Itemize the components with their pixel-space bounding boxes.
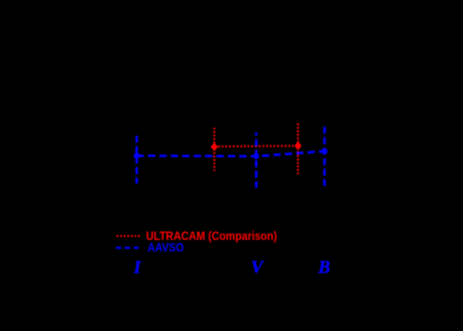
legend red dotted sample (117, 235, 141, 237)
svg-text:AAVSO: AAVSO (148, 241, 184, 254)
svg-text:V: V (251, 257, 265, 277)
blue marker 2 (253, 153, 259, 159)
svg-text:I: I (133, 257, 142, 277)
red errorbar 1 (213, 128, 215, 171)
svg-text:B: B (317, 257, 330, 277)
blue errorbar 3 (323, 127, 326, 186)
blue errorbar 1 (135, 136, 138, 184)
red marker 2 (294, 142, 301, 151)
red errorbar 2 (297, 123, 299, 174)
blue marker 3 (322, 148, 328, 154)
blue marker 1 (134, 153, 140, 159)
red marker 1 (211, 143, 218, 152)
blue errorbar 2 (255, 133, 258, 188)
blue dashed polyline (137, 151, 325, 156)
red dotted line (214, 145, 298, 148)
legend blue dashed sample (116, 247, 140, 249)
